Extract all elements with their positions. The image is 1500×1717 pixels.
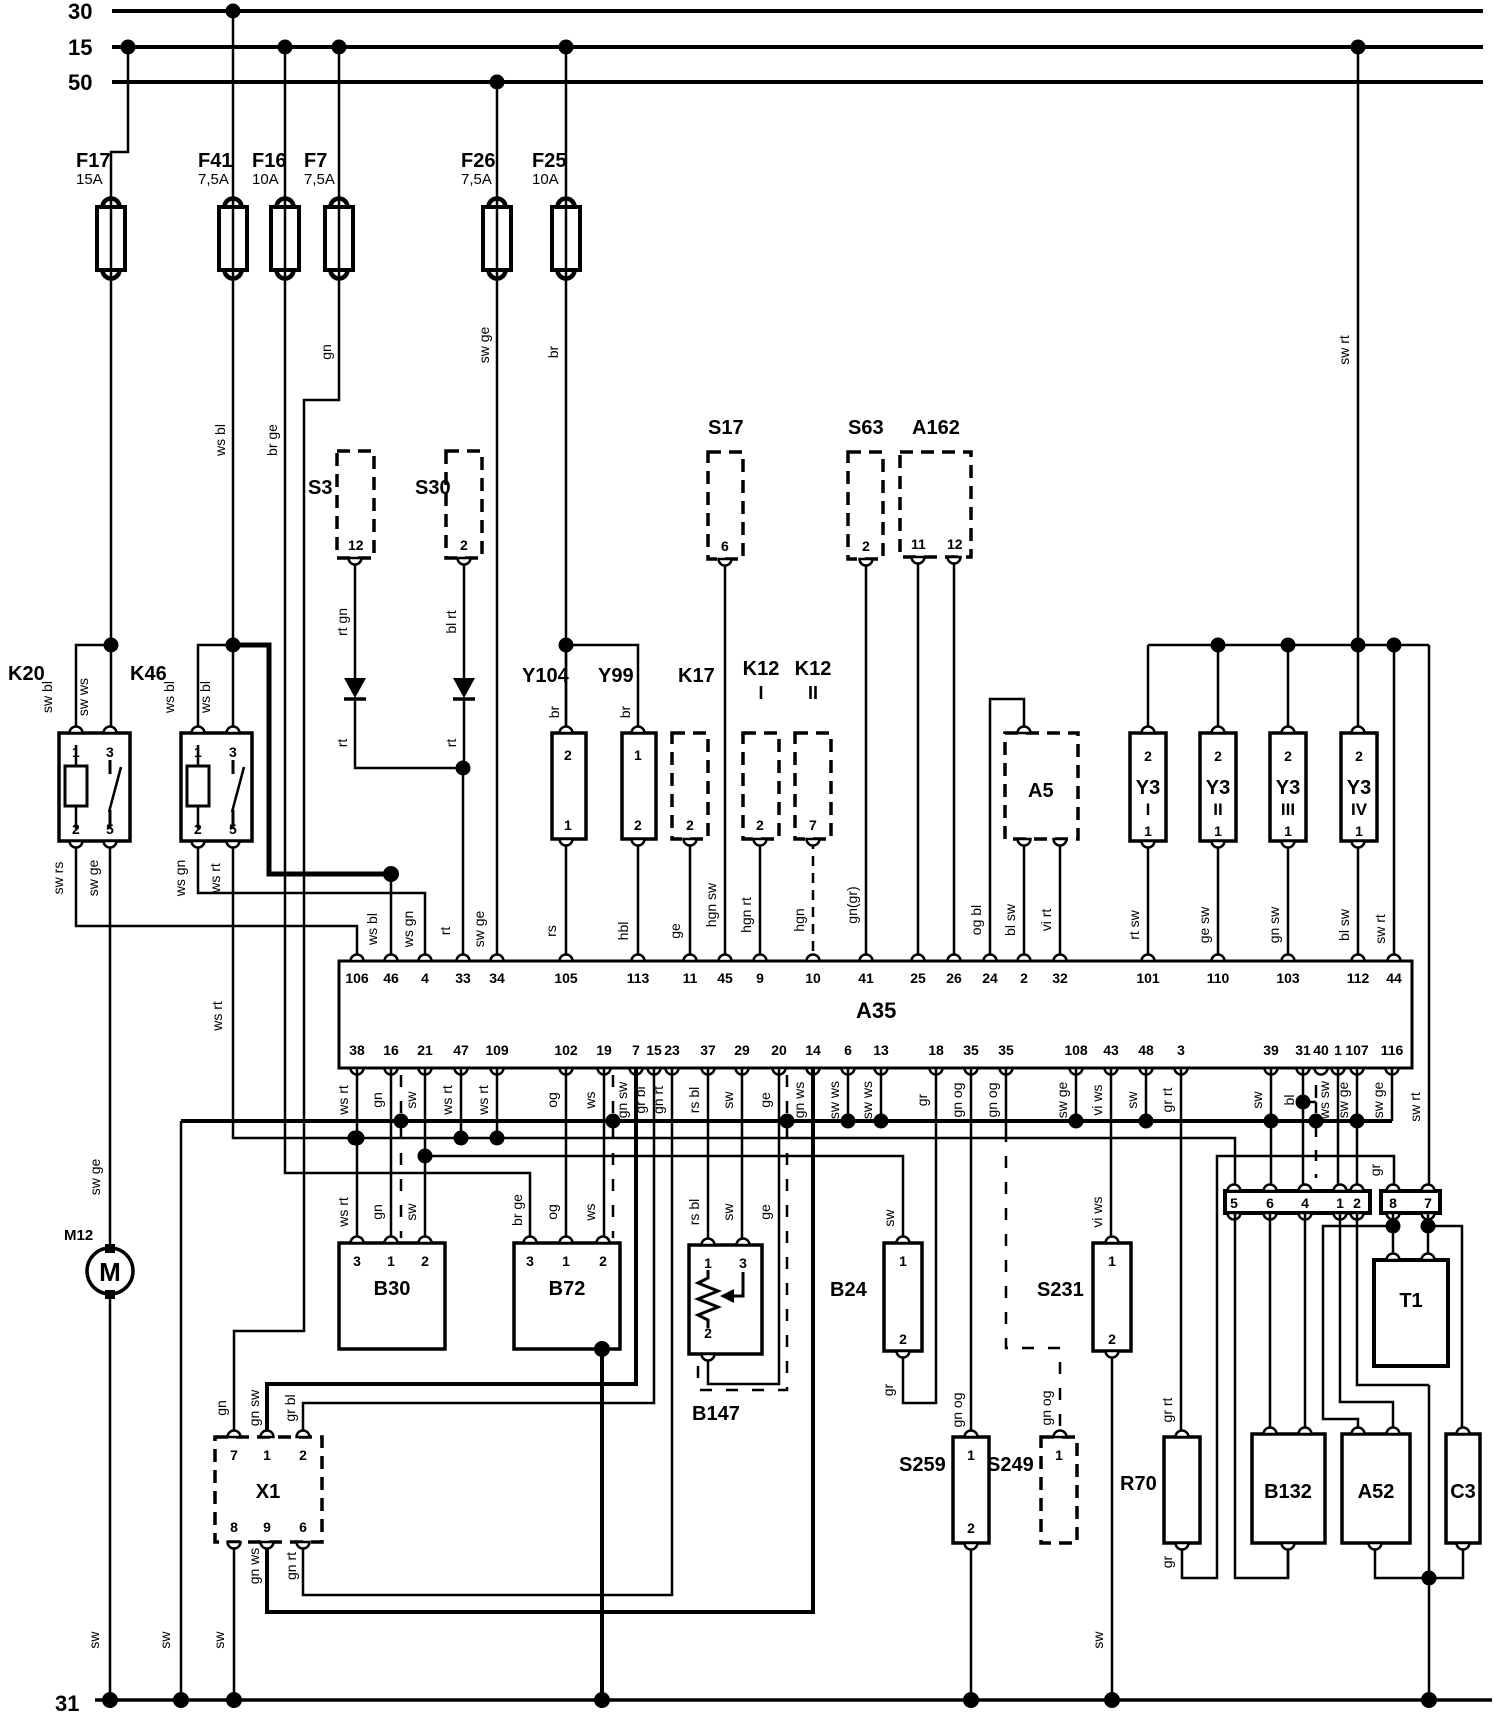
svg-text:S63: S63 xyxy=(848,417,884,439)
svg-text:7: 7 xyxy=(1424,1195,1432,1211)
wire connector pin6 to B132 pin1 xyxy=(1269,1213,1272,1434)
svg-text:gr: gr xyxy=(1367,1163,1383,1176)
svg-text:50: 50 xyxy=(68,70,92,95)
svg-text:F25: F25 xyxy=(532,150,566,172)
svg-text:bl sw: bl sw xyxy=(1002,903,1018,936)
ignition coil T1 xyxy=(1374,1260,1448,1366)
svg-text:sw: sw xyxy=(86,1631,102,1649)
svg-text:gn sw: gn sw xyxy=(1266,906,1282,943)
svg-text:31: 31 xyxy=(55,1691,79,1716)
wire A5 pin vi rt (to A35 pin32) xyxy=(1038,839,1060,961)
svg-text:1: 1 xyxy=(1284,823,1292,839)
svg-text:1: 1 xyxy=(1355,823,1363,839)
node: A35 bottom pin terminals xyxy=(349,1042,1403,1075)
svg-text:9: 9 xyxy=(263,1519,271,1535)
ECU A35 xyxy=(339,961,1412,1068)
svg-text:rt sw: rt sw xyxy=(1126,909,1142,939)
svg-text:A162: A162 xyxy=(912,417,960,439)
svg-text:7: 7 xyxy=(809,817,817,833)
wire A35 pin3 gr rt to R70 pin1 xyxy=(1159,1068,1181,1437)
wire connector pin4 to B132 pin2 xyxy=(1304,1213,1307,1434)
svg-text:sw ge: sw ge xyxy=(85,860,101,897)
svg-text:1: 1 xyxy=(634,747,642,763)
switch S17 xyxy=(708,417,744,559)
svg-text:48: 48 xyxy=(1138,1042,1154,1058)
svg-text:43: 43 xyxy=(1103,1042,1119,1058)
svg-text:3: 3 xyxy=(229,744,237,760)
svg-text:gn: gn xyxy=(369,1092,385,1108)
svg-text:37: 37 xyxy=(700,1042,716,1058)
svg-text:Y3: Y3 xyxy=(1276,777,1300,799)
switch S249 xyxy=(987,1437,1077,1543)
wire Y3-III pin2 xyxy=(1287,645,1290,733)
svg-text:1: 1 xyxy=(704,1255,712,1271)
svg-text:7,5A: 7,5A xyxy=(461,171,492,188)
wire A35 pin116 sw ge to screen rail xyxy=(1391,1068,1394,1121)
svg-text:Y3: Y3 xyxy=(1347,777,1371,799)
svg-text:ge sw: ge sw xyxy=(1196,906,1212,943)
svg-text:1: 1 xyxy=(1108,1253,1116,1269)
wire A35 pin29 sw to B147 pin3 xyxy=(720,1068,742,1245)
svg-text:10A: 10A xyxy=(252,171,279,188)
svg-text:2: 2 xyxy=(72,821,80,837)
svg-text:B72: B72 xyxy=(549,1278,586,1300)
svg-text:bl: bl xyxy=(1281,1095,1297,1106)
svg-text:1: 1 xyxy=(564,817,572,833)
node: connector terminals xyxy=(1228,1185,1435,1220)
svg-text:15A: 15A xyxy=(76,171,103,188)
svg-text:6: 6 xyxy=(844,1042,852,1058)
diode D (S30 branch) xyxy=(453,678,475,699)
resistor R70 xyxy=(1120,1437,1200,1543)
svg-text:109: 109 xyxy=(485,1042,509,1058)
unit A52 xyxy=(1342,1434,1410,1543)
svg-text:Y3: Y3 xyxy=(1206,777,1230,799)
svg-text:21: 21 xyxy=(417,1042,433,1058)
svg-text:F41: F41 xyxy=(198,150,232,172)
wire Y3 rail sw rt to connector pin7 xyxy=(1407,645,1429,1191)
bus 31 (ground) xyxy=(55,1691,1492,1716)
svg-text:T1: T1 xyxy=(1399,1290,1422,1312)
svg-text:ws gn: ws gn xyxy=(400,911,416,949)
svg-text:2: 2 xyxy=(967,1520,975,1536)
node: junction dots on buses xyxy=(121,4,1366,90)
svg-text:ws rt: ws rt xyxy=(335,1085,351,1116)
wire B132 bottom xyxy=(1287,1543,1290,1578)
bus 50 xyxy=(68,70,1483,95)
svg-text:X1: X1 xyxy=(256,1481,280,1503)
svg-text:ws: ws xyxy=(582,1091,598,1109)
svg-text:38: 38 xyxy=(349,1042,365,1058)
svg-text:34: 34 xyxy=(489,970,505,986)
svg-text:II: II xyxy=(808,683,818,703)
svg-text:2: 2 xyxy=(1355,748,1363,764)
svg-text:2: 2 xyxy=(564,747,572,763)
wire F7 out gn (to X1 pin7) xyxy=(213,270,339,1437)
wire R70 pin2 gr to connector pin8 xyxy=(1159,1156,1394,1578)
svg-text:5: 5 xyxy=(1230,1195,1238,1211)
wire A35 pin16 gn to B30 pin1 xyxy=(369,1068,391,1243)
wire S30 diode to A35 pin33 rt xyxy=(437,699,471,961)
svg-text:br: br xyxy=(545,345,561,358)
fuse F25 10A xyxy=(532,150,580,279)
svg-text:sw: sw xyxy=(157,1631,173,1649)
svg-text:sw bl: sw bl xyxy=(39,681,55,713)
svg-text:ws rt: ws rt xyxy=(209,1001,225,1032)
svg-text:R70: R70 xyxy=(1120,1473,1157,1495)
svg-text:br ge: br ge xyxy=(264,424,280,456)
svg-text:ws bl: ws bl xyxy=(364,913,380,946)
sensor B24 xyxy=(830,1243,922,1351)
injector Y3 II xyxy=(1200,733,1236,841)
svg-text:35: 35 xyxy=(963,1042,979,1058)
switch S259 xyxy=(899,1437,989,1543)
svg-text:2: 2 xyxy=(1144,748,1152,764)
svg-text:gn rt: gn rt xyxy=(283,1552,299,1580)
wire bus15 to F7 xyxy=(338,47,341,207)
wire Y3-I pin1 rt sw (to A35 pin101) xyxy=(1126,841,1148,961)
svg-text:sw ws: sw ws xyxy=(75,678,91,716)
fuse F26 7,5A xyxy=(461,150,511,279)
svg-text:103: 103 xyxy=(1276,970,1300,986)
wire Y3-IV pin1 bl sw (to A35 pin112) xyxy=(1336,841,1358,961)
wire K20 pin2 sw rs (to A35 pin106) xyxy=(50,841,357,961)
svg-text:10A: 10A xyxy=(532,171,559,188)
svg-text:hgn sw: hgn sw xyxy=(703,882,719,927)
svg-text:12: 12 xyxy=(947,536,963,552)
svg-text:2: 2 xyxy=(899,1331,907,1347)
svg-text:K12: K12 xyxy=(743,658,780,680)
wire X1 pin8 sw to bus31 xyxy=(211,1542,234,1700)
svg-text:Y99: Y99 xyxy=(598,665,634,687)
svg-text:B147: B147 xyxy=(692,1403,740,1425)
relay contact K12 I xyxy=(743,658,780,839)
svg-text:32: 32 xyxy=(1052,970,1068,986)
svg-text:1: 1 xyxy=(899,1253,907,1269)
svg-text:1: 1 xyxy=(1214,823,1222,839)
svg-text:M12: M12 xyxy=(64,1227,93,1244)
svg-text:6: 6 xyxy=(299,1519,307,1535)
svg-text:F26: F26 xyxy=(461,150,495,172)
wire Y3-IV pin2 xyxy=(1357,645,1360,733)
wire A35 pin21 sw to B30 pin2, branch to B24 pin1 xyxy=(403,1068,903,1243)
wire A35 pin37 rs bl to B147 pin1 xyxy=(686,1068,708,1245)
bus 15 xyxy=(68,35,1483,60)
connector X1 xyxy=(215,1437,322,1542)
svg-text:S259: S259 xyxy=(899,1454,946,1476)
svg-text:40: 40 xyxy=(1313,1042,1329,1058)
svg-text:3: 3 xyxy=(353,1253,361,1269)
svg-text:vi rt: vi rt xyxy=(1038,909,1054,932)
svg-text:1: 1 xyxy=(72,744,80,760)
svg-text:gn og: gn og xyxy=(1038,1390,1054,1425)
svg-text:12: 12 xyxy=(348,537,364,553)
svg-text:30: 30 xyxy=(68,0,92,24)
wire A35 pin1 ws sw to connector pin1 xyxy=(1337,1068,1340,1191)
relay contact K17 xyxy=(672,665,715,839)
motor M12 xyxy=(64,1227,133,1299)
svg-text:2: 2 xyxy=(421,1253,429,1269)
svg-text:10: 10 xyxy=(805,970,821,986)
svg-text:gn: gn xyxy=(213,1400,229,1416)
svg-text:45: 45 xyxy=(717,970,733,986)
capacitor C3 xyxy=(1446,1434,1480,1543)
svg-text:110: 110 xyxy=(1207,970,1230,986)
svg-text:102: 102 xyxy=(554,1042,578,1058)
switch S63 xyxy=(848,417,884,559)
svg-text:br ge: br ge xyxy=(509,1194,525,1226)
svg-text:og: og xyxy=(544,1204,560,1220)
fuse F16 10A xyxy=(252,150,299,279)
svg-text:3: 3 xyxy=(1177,1042,1185,1058)
svg-text:sw ge: sw ge xyxy=(476,327,492,364)
sensor B72 xyxy=(514,1243,620,1349)
svg-text:rt gn: rt gn xyxy=(334,608,350,636)
svg-text:gn: gn xyxy=(369,1204,385,1220)
svg-text:F17: F17 xyxy=(76,150,110,172)
svg-text:hbl: hbl xyxy=(615,922,631,941)
svg-text:sw: sw xyxy=(1090,1631,1106,1649)
svg-text:gn og: gn og xyxy=(949,1392,965,1427)
switch S30 xyxy=(415,451,482,558)
svg-text:2: 2 xyxy=(1020,970,1028,986)
svg-text:F7: F7 xyxy=(304,150,327,172)
svg-text:sw: sw xyxy=(1249,1091,1265,1109)
svg-text:sw rt: sw rt xyxy=(1372,914,1388,944)
wire A35 pin48 sw to screen rail xyxy=(1145,1068,1148,1121)
svg-text:3: 3 xyxy=(739,1255,747,1271)
svg-text:1: 1 xyxy=(1055,1447,1063,1463)
svg-text:ws gn: ws gn xyxy=(172,860,188,898)
svg-text:sw: sw xyxy=(211,1631,227,1649)
fuse F17 15A xyxy=(76,150,125,279)
svg-text:gr: gr xyxy=(1159,1555,1175,1568)
svg-text:sw ge: sw ge xyxy=(1054,1082,1070,1119)
svg-text:S231: S231 xyxy=(1037,1279,1084,1301)
svg-text:gn sw: gn sw xyxy=(246,1389,262,1426)
svg-text:gn og: gn og xyxy=(984,1082,1000,1117)
wire bus15 sw rt (to Y3 rail) xyxy=(1336,47,1358,645)
wire C3 bottom to ground trunk xyxy=(1429,1543,1463,1578)
svg-text:sw ge: sw ge xyxy=(471,911,487,948)
svg-text:bl rt: bl rt xyxy=(443,610,459,633)
wire A35 pin18 gr to B24 pin2 xyxy=(880,1068,936,1403)
svg-text:1: 1 xyxy=(194,744,202,760)
svg-text:ws rt: ws rt xyxy=(335,1197,351,1228)
svg-text:41: 41 xyxy=(858,970,874,986)
svg-text:og bl: og bl xyxy=(968,905,984,935)
wire K46 branch to A35 pin46 ws bl (thick) xyxy=(233,645,399,961)
svg-text:II: II xyxy=(1213,800,1222,819)
svg-text:8: 8 xyxy=(1389,1195,1397,1211)
wire K46 pin5 ws rt (screen rail to connector pin5) xyxy=(207,841,1235,1191)
wire bus30 to F41 xyxy=(232,11,235,207)
node: A35 bottom pin wire colour labels xyxy=(335,1080,1386,1120)
svg-text:39: 39 xyxy=(1263,1042,1279,1058)
wire Y3-II pin1 ge sw (to A35 pin110) xyxy=(1196,841,1218,961)
svg-text:sw ws: sw ws xyxy=(859,1081,875,1119)
svg-text:sw: sw xyxy=(881,1209,897,1227)
node: upper component terminals xyxy=(70,557,1365,848)
svg-text:47: 47 xyxy=(453,1042,469,1058)
wire bus15 to F25 xyxy=(565,47,568,207)
svg-text:2: 2 xyxy=(194,821,202,837)
svg-text:6: 6 xyxy=(721,538,729,554)
svg-text:ws rt: ws rt xyxy=(439,1085,455,1116)
svg-text:gr rt: gr rt xyxy=(1159,1087,1175,1112)
relay K20 xyxy=(8,663,130,841)
svg-text:2: 2 xyxy=(1353,1195,1361,1211)
svg-text:ge: ge xyxy=(757,1204,773,1220)
svg-text:4: 4 xyxy=(1301,1195,1309,1211)
wire bus15 to F17 xyxy=(111,47,128,207)
wire A35 pin43 vi ws to S231 pin1 xyxy=(1089,1068,1111,1243)
wire F41 out ws bl (to K46 pin3) xyxy=(212,270,241,733)
unit B132 xyxy=(1252,1434,1325,1543)
wire diode to node rt xyxy=(334,699,462,768)
svg-text:1: 1 xyxy=(263,1447,271,1463)
svg-text:25: 25 xyxy=(910,970,926,986)
svg-text:7: 7 xyxy=(632,1042,640,1058)
fuse F41 7,5A xyxy=(198,150,247,279)
wire S17 pin6 hgn sw (to A35 pin45) xyxy=(703,559,725,961)
svg-text:M: M xyxy=(99,1257,121,1287)
wire S30 pin2 bl rt xyxy=(443,558,464,680)
wire Y3 rail to A35 pin44 sw rt xyxy=(1372,645,1394,961)
svg-text:A52: A52 xyxy=(1358,1481,1395,1503)
wire connector pin7 to T1 right pin / C3, ground trunk xyxy=(1421,1213,1463,1700)
node: T1 terminals xyxy=(1387,1254,1435,1261)
wire K20 pin5 sw ge (to M12) xyxy=(85,841,110,1249)
wire A52 bottom to ground trunk xyxy=(1375,1543,1429,1578)
svg-text:8: 8 xyxy=(230,1519,238,1535)
wire A35 pin6 sw ws to screen rail xyxy=(847,1068,850,1121)
svg-text:hgn rt: hgn rt xyxy=(738,897,754,933)
svg-text:1: 1 xyxy=(1334,1042,1342,1058)
wire K46 pin1 ws bl xyxy=(161,645,233,733)
wire A35 pin108 sw ge to screen rail xyxy=(1075,1068,1078,1121)
svg-text:gn: gn xyxy=(318,344,334,360)
injector Y3 I xyxy=(1130,733,1166,841)
svg-text:gn og: gn og xyxy=(949,1082,965,1117)
svg-text:rt: rt xyxy=(443,739,459,748)
node: A35 top pin terminals xyxy=(345,955,1402,986)
svg-text:S3: S3 xyxy=(308,477,332,499)
svg-text:rs bl: rs bl xyxy=(686,1087,702,1113)
svg-text:gn rt: gn rt xyxy=(650,1086,666,1114)
svg-text:13: 13 xyxy=(873,1042,889,1058)
wire S259 pin2 to bus31 xyxy=(970,1543,973,1700)
svg-text:116: 116 xyxy=(1381,1042,1404,1058)
svg-text:ws bl: ws bl xyxy=(161,681,177,714)
wire S231 pin2 sw to bus31 xyxy=(1090,1351,1112,1700)
wire A5 pin bl sw (to A35 pin2) xyxy=(1002,839,1024,961)
svg-text:9: 9 xyxy=(756,970,764,986)
svg-text:3: 3 xyxy=(106,744,114,760)
svg-text:IV: IV xyxy=(1351,800,1368,819)
diode D (S3 branch) xyxy=(344,678,366,699)
svg-text:vi ws: vi ws xyxy=(1089,1196,1105,1227)
svg-text:46: 46 xyxy=(383,970,399,986)
svg-text:Y3: Y3 xyxy=(1136,777,1160,799)
svg-text:108: 108 xyxy=(1064,1042,1088,1058)
svg-text:24: 24 xyxy=(982,970,998,986)
wire A35 pin102 og to B72 pin1 xyxy=(544,1068,566,1243)
wire Y104 pin1 rs (to A35 pin105) xyxy=(543,839,566,961)
valve Y104 xyxy=(522,665,586,839)
svg-text:gn sw: gn sw xyxy=(614,1081,630,1118)
injector Y3 IV xyxy=(1341,733,1377,841)
svg-text:Y104: Y104 xyxy=(522,665,570,687)
wire A35 pin13 sw ws to screen rail xyxy=(880,1068,883,1121)
wire A162 pin11 (to A35 pin25) xyxy=(917,557,920,961)
svg-text:rt: rt xyxy=(437,927,453,936)
sensor B30 xyxy=(339,1243,445,1349)
wire K12-II pin7 hgn dashed (to A35 pin10) xyxy=(791,839,813,961)
wire A35 pin20 ge to B147 pin2 xyxy=(708,1068,779,1384)
svg-text:sw ge: sw ge xyxy=(87,1159,103,1196)
svg-text:18: 18 xyxy=(928,1042,944,1058)
svg-text:B132: B132 xyxy=(1264,1481,1312,1503)
svg-text:bl sw: bl sw xyxy=(1336,908,1352,941)
svg-text:107: 107 xyxy=(1345,1042,1369,1058)
svg-text:F16: F16 xyxy=(252,150,286,172)
svg-text:sw: sw xyxy=(403,1203,419,1221)
wire A35 pin31 bl to connector pin4 xyxy=(1296,1068,1311,1191)
wire Y3-II pin2 xyxy=(1217,645,1220,733)
svg-text:2: 2 xyxy=(1108,1331,1116,1347)
svg-text:20: 20 xyxy=(771,1042,787,1058)
wire connector pin5 to B132 bottom xyxy=(1235,1213,1288,1578)
wire M12 to bus31 sw xyxy=(86,1294,110,1700)
svg-text:4: 4 xyxy=(421,970,429,986)
node: lower component terminals xyxy=(228,1237,1470,1550)
wire K17 pin2 ge (to A35 pin11) xyxy=(667,839,690,961)
wire K20 pin1 sw bl xyxy=(39,645,111,733)
svg-text:sw: sw xyxy=(720,1091,736,1109)
svg-text:106: 106 xyxy=(345,970,369,986)
svg-text:gn ws: gn ws xyxy=(791,1082,807,1119)
wire F17 out (to K20 pin3) xyxy=(104,270,119,733)
svg-text:35: 35 xyxy=(998,1042,1014,1058)
wire A35 pin107 sw ge to connector pin2 xyxy=(1350,1068,1365,1191)
svg-text:2: 2 xyxy=(862,538,870,554)
svg-text:br: br xyxy=(546,705,562,718)
svg-text:29: 29 xyxy=(734,1042,750,1058)
node: Y3 supply rail xyxy=(1148,638,1429,653)
wire K46 pin2 ws gn (to A35 pin4) xyxy=(172,841,425,961)
switch S231 xyxy=(1037,1243,1131,1351)
svg-text:sw: sw xyxy=(720,1203,736,1221)
svg-text:2: 2 xyxy=(599,1253,607,1269)
svg-text:gn(gr): gn(gr) xyxy=(844,886,860,923)
svg-text:11: 11 xyxy=(911,536,926,552)
svg-text:33: 33 xyxy=(455,970,471,986)
svg-text:7: 7 xyxy=(230,1447,238,1463)
svg-text:ws bl: ws bl xyxy=(197,681,213,714)
bus 30 xyxy=(68,0,1483,24)
svg-text:I: I xyxy=(758,683,763,703)
svg-text:1: 1 xyxy=(967,1447,975,1463)
svg-text:gr rt: gr rt xyxy=(1159,1397,1175,1422)
svg-text:2: 2 xyxy=(686,817,694,833)
svg-text:2: 2 xyxy=(756,817,764,833)
svg-text:C3: C3 xyxy=(1450,1481,1476,1503)
svg-text:15: 15 xyxy=(68,35,92,60)
svg-text:vi ws: vi ws xyxy=(1089,1084,1105,1115)
svg-text:7,5A: 7,5A xyxy=(304,171,335,188)
svg-text:1: 1 xyxy=(1336,1195,1344,1211)
